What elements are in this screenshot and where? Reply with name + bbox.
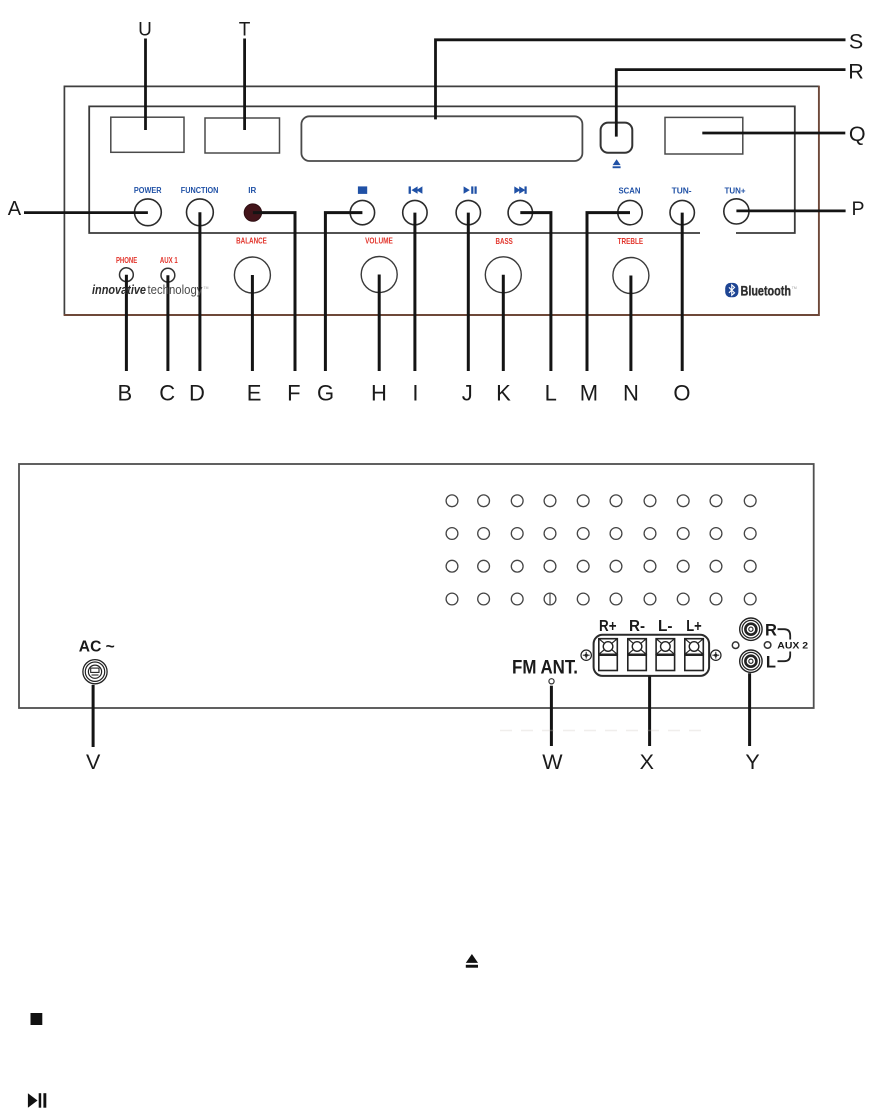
svg-text:Y: Y — [745, 750, 759, 774]
svg-text:I: I — [412, 381, 418, 406]
svg-text:TM: TM — [204, 286, 209, 290]
svg-text:D: D — [189, 381, 205, 406]
svg-text:L-: L- — [658, 618, 673, 635]
svg-text:M: M — [580, 381, 598, 406]
svg-text:technology: technology — [148, 282, 203, 297]
svg-text:Bluetooth: Bluetooth — [741, 283, 792, 298]
svg-text:R: R — [765, 621, 777, 639]
svg-text:H: H — [371, 381, 387, 406]
svg-text:TREBLE: TREBLE — [618, 236, 644, 246]
svg-text:S: S — [849, 30, 863, 54]
svg-text:A: A — [8, 198, 22, 220]
svg-text:G: G — [317, 381, 334, 406]
svg-text:TM: TM — [792, 286, 797, 290]
svg-text:T: T — [239, 20, 251, 41]
svg-text:R: R — [848, 60, 864, 84]
svg-text:SCAN: SCAN — [619, 185, 641, 195]
svg-text:R-: R- — [629, 618, 645, 635]
svg-text:FUNCTION: FUNCTION — [181, 185, 219, 195]
svg-text:POWER: POWER — [134, 185, 162, 195]
svg-text:VOLUME: VOLUME — [365, 235, 393, 245]
svg-text:AC ~: AC ~ — [79, 638, 115, 655]
svg-text:O: O — [673, 381, 690, 406]
svg-text:IR: IR — [248, 185, 257, 195]
svg-text:B: B — [118, 381, 133, 406]
svg-text:U: U — [138, 20, 152, 41]
svg-text:PHONE: PHONE — [116, 256, 137, 265]
svg-text:AUX 2: AUX 2 — [777, 640, 808, 651]
svg-text:P: P — [851, 198, 864, 220]
svg-text:innovative: innovative — [92, 282, 146, 297]
svg-text:W: W — [542, 750, 563, 774]
svg-text:N: N — [623, 381, 639, 406]
svg-text:BALANCE: BALANCE — [236, 235, 267, 245]
svg-text:L: L — [766, 653, 776, 671]
svg-text:E: E — [247, 381, 262, 406]
svg-text:V: V — [86, 750, 101, 774]
svg-text:K: K — [496, 381, 511, 406]
svg-text:X: X — [640, 750, 654, 774]
svg-text:Q: Q — [849, 122, 866, 146]
svg-text:J: J — [462, 381, 473, 406]
svg-text:TUN-: TUN- — [672, 185, 692, 195]
svg-text:AUX 1: AUX 1 — [160, 256, 178, 265]
svg-text:F: F — [287, 381, 300, 406]
svg-text:C: C — [159, 381, 175, 406]
svg-text:TUN+: TUN+ — [725, 185, 746, 195]
svg-text:FM ANT.: FM ANT. — [512, 658, 578, 679]
svg-text:L+: L+ — [686, 618, 702, 635]
svg-text:BASS: BASS — [496, 236, 514, 246]
svg-text:L: L — [545, 381, 557, 406]
svg-text:R+: R+ — [599, 618, 617, 635]
